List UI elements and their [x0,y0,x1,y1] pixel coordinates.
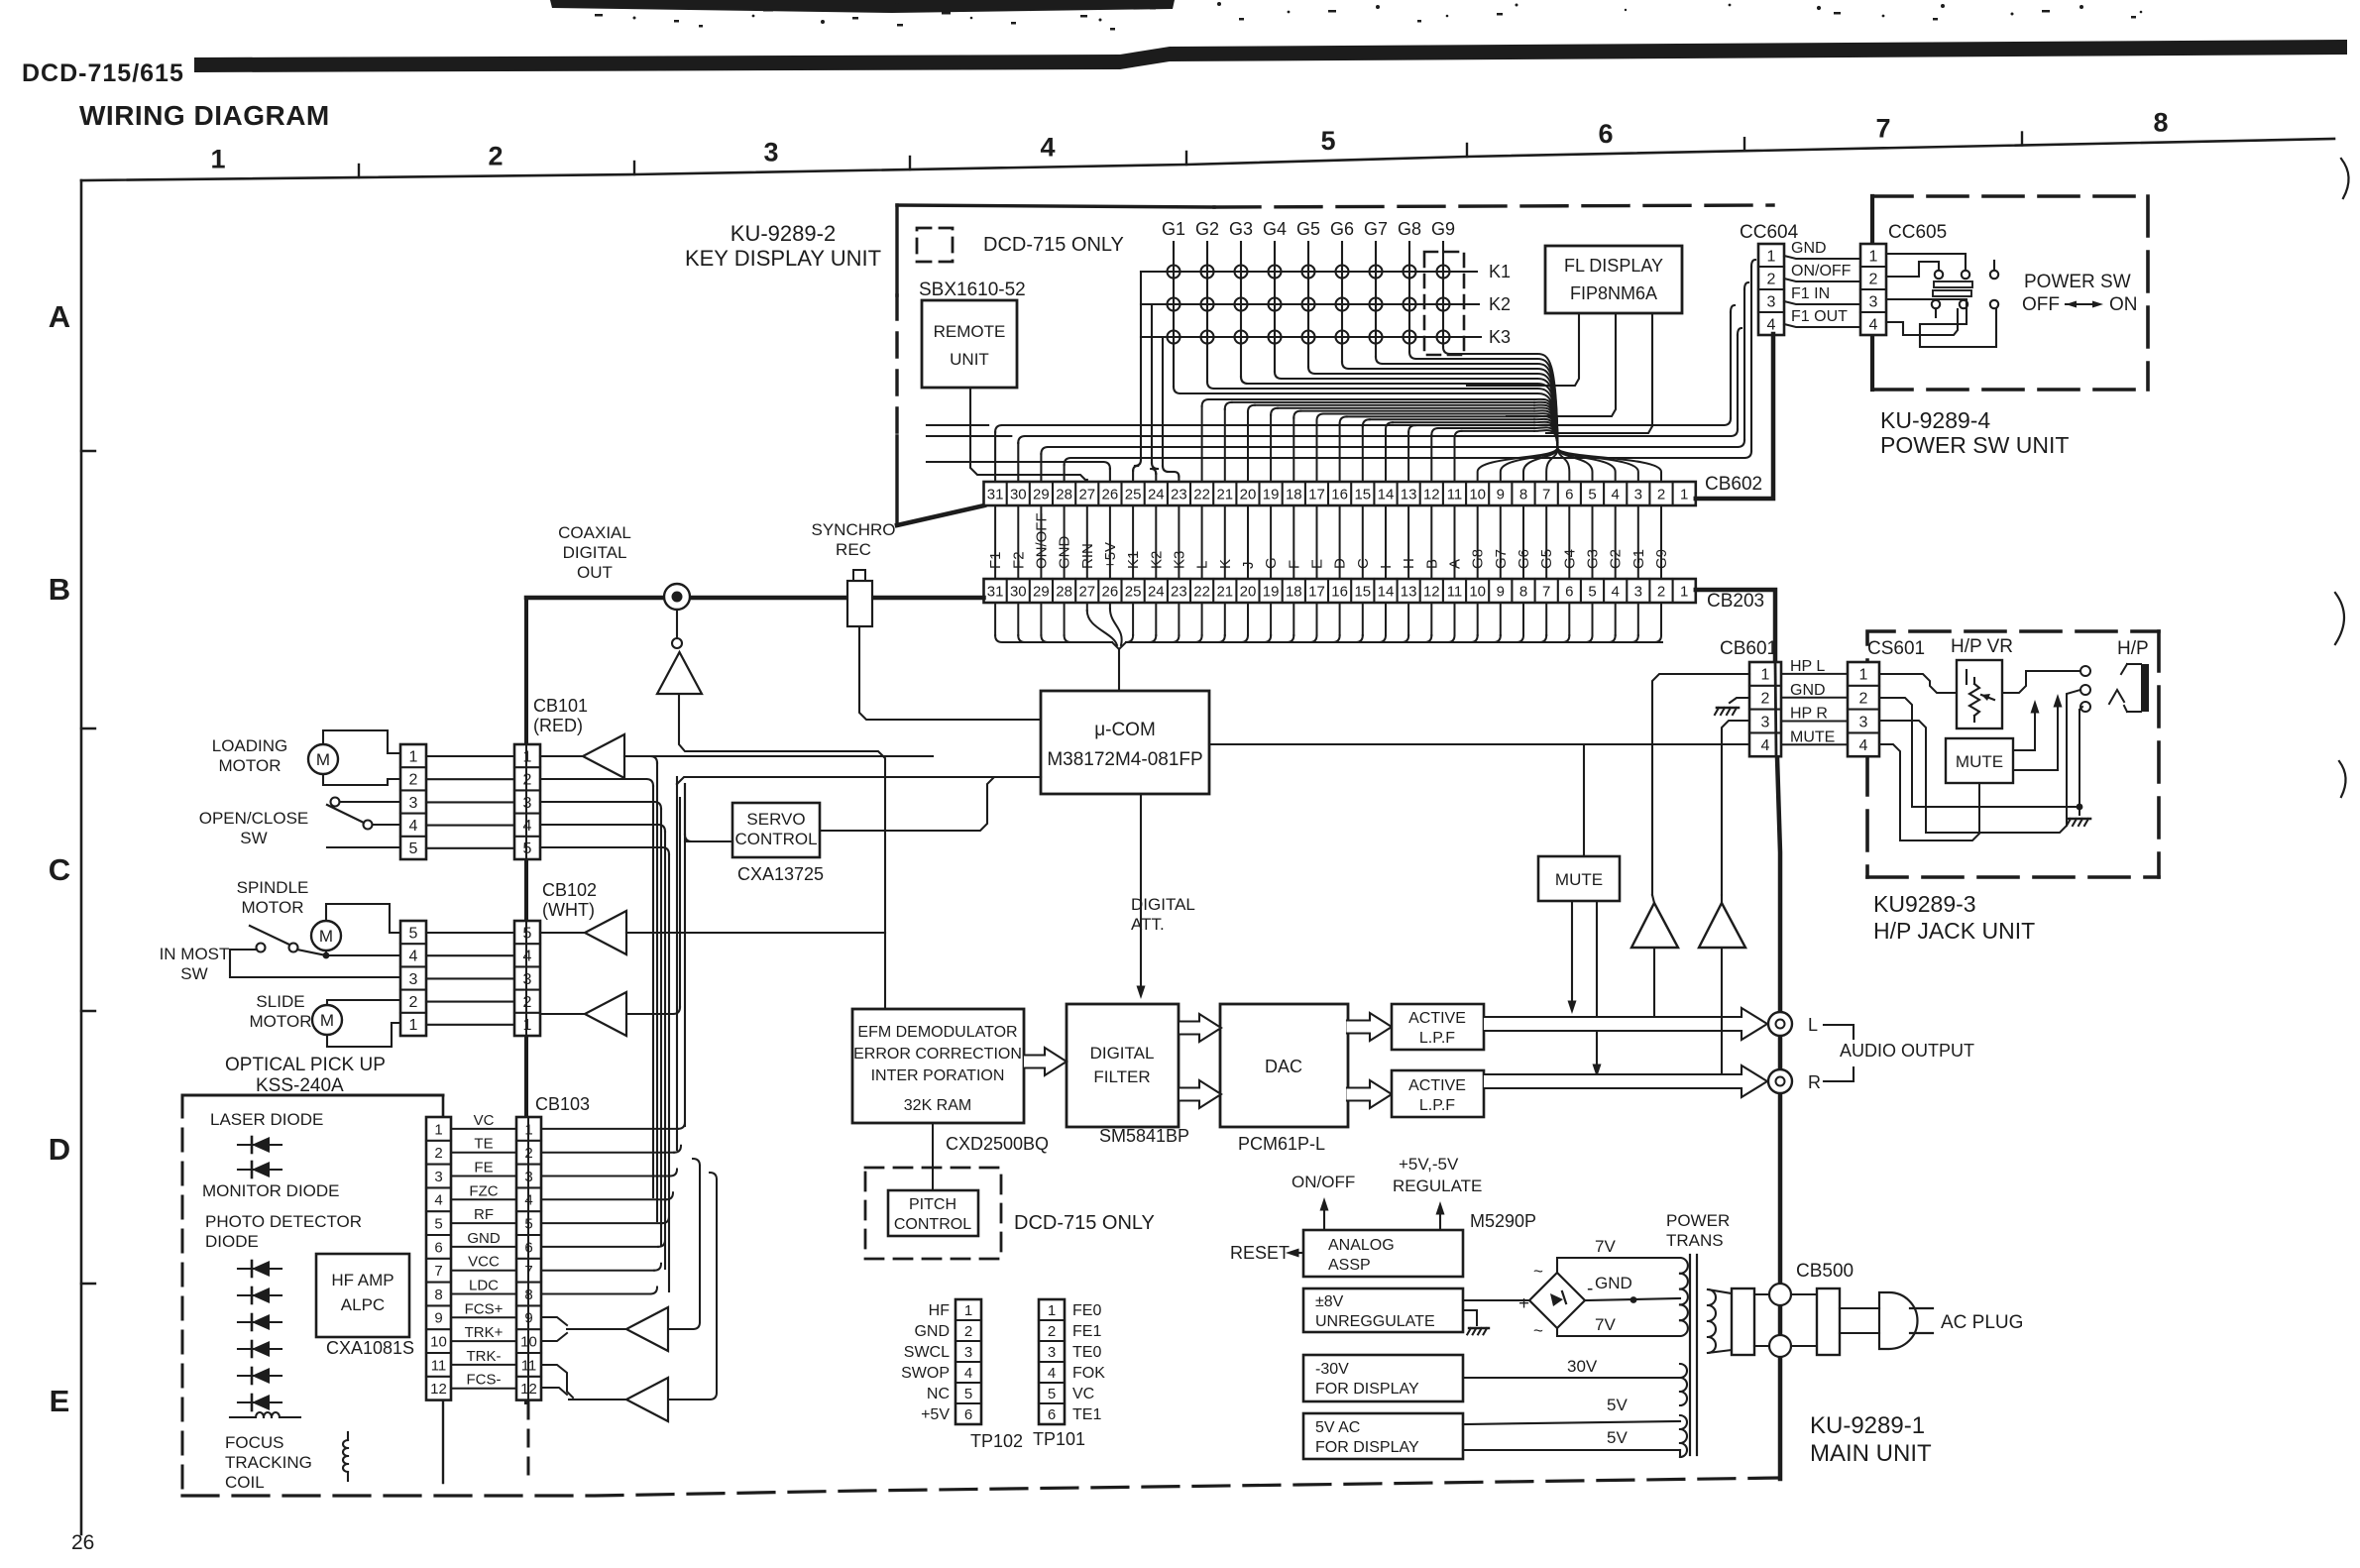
pitch control text [894,1196,971,1233]
svg-text:30: 30 [1010,583,1027,600]
svg-text:OFF: OFF [2022,294,2060,315]
motor loading label [212,736,288,775]
grid row label D [49,1132,70,1167]
ac plug prongs [1910,1308,1933,1333]
label GND mid [1595,1274,1632,1292]
svg-text:G7: G7 [1493,549,1510,569]
wire CS601 pin2 gnd path [1879,698,2082,815]
wire bundle G lines pinch [1180,354,1661,482]
svg-text:H/P JACK UNIT: H/P JACK UNIT [1873,918,2035,944]
psu box 8v [1303,1288,1463,1332]
svg-text:M38172M4-081FP: M38172M4-081FP [1047,749,1202,770]
connector CS601 label [1867,638,1925,659]
wire +5V pin26 [927,462,1110,482]
wire CS601 pin3 to jack ring [1879,690,2080,833]
open/close switch [327,798,400,848]
photo diode D5 [238,1314,281,1330]
svg-text:GND: GND [914,1323,950,1340]
svg-text:13: 13 [1401,583,1417,600]
wire CB101 pin2 fan [540,779,653,786]
svg-text:20: 20 [1240,486,1257,503]
CB601-CS601 labels [1790,658,1835,745]
wire mute arrow R [1593,901,1602,1077]
svg-text:KU-9289-4: KU-9289-4 [1880,407,1990,433]
svg-text:25: 25 [1125,583,1142,600]
grid row label C [49,852,70,887]
power sw unit label [1880,407,2069,458]
digital filter text [1090,1044,1155,1086]
synchro rec label [811,520,895,559]
wire 8v to bridge [1463,1299,1529,1301]
connector motor strip 2 [400,921,426,1036]
svg-text:3: 3 [1048,1344,1056,1361]
svg-text:1: 1 [523,748,532,765]
CB602-CB203 signal labels [987,512,1670,569]
svg-text:3: 3 [1869,293,1878,310]
wire CB602-CB203 vertical links [995,505,1661,579]
motor M slide [312,1005,342,1035]
digital att label [1131,895,1195,934]
ground CB601 gnd [1715,698,1749,715]
svg-text:COIL: COIL [225,1473,265,1492]
connector CB101 [514,744,540,859]
svg-text:CONTROL: CONTROL [894,1216,971,1233]
svg-text:F2: F2 [1010,551,1027,569]
wire CB103 pin11-12 to tracking amp [541,1365,626,1400]
svg-text:5: 5 [523,925,532,942]
key matrix G column lines [1174,242,1450,393]
transformer secondary 2 [1680,1364,1687,1405]
photo diode D4 [238,1288,281,1303]
wire CB500 links [1754,1294,1817,1346]
svg-text:11: 11 [1447,583,1463,600]
svg-text:AUDIO OUTPUT: AUDIO OUTPUT [1840,1041,1974,1061]
inverter buffer U-coax [657,610,702,694]
connector CB102 [514,921,540,1036]
svg-text:15: 15 [1354,583,1371,600]
pitch control box [888,1190,978,1236]
optical pickup label [225,1055,386,1096]
svg-text:CXA1081S: CXA1081S [326,1338,414,1358]
audio output bracket [1824,1025,1854,1081]
svg-text:FILTER: FILTER [1093,1067,1150,1086]
key matrix K row lines [1141,272,1481,337]
svg-text:SW: SW [240,829,267,847]
DAC part label PCM61P-L [1238,1134,1325,1154]
svg-text:(WHT): (WHT) [542,900,595,920]
svg-text:5: 5 [434,1216,442,1233]
svg-text:INTER PORATION: INTER PORATION [871,1067,1005,1084]
svg-text:FE0: FE0 [1072,1302,1101,1319]
connector CB203 [984,579,1696,603]
mute box text [1555,870,1603,889]
wire CB101 pin3 fan [540,802,661,809]
svg-text:24: 24 [1148,486,1165,503]
svg-text:2: 2 [409,772,418,789]
grid row label B [49,572,70,607]
svg-text:FCS+: FCS+ [465,1300,504,1317]
svg-text:E: E [50,1384,70,1418]
svg-text:ON: ON [2109,294,2138,315]
svg-text:L.P.F: L.P.F [1419,1030,1455,1047]
svg-text:6: 6 [1598,119,1613,149]
svg-text:POWER SW UNIT: POWER SW UNIT [1880,432,2069,458]
DCD-715 ONLY legend box [917,228,953,262]
remote unit text [934,322,1006,369]
svg-text:DIGITAL: DIGITAL [563,543,627,562]
svg-text:30V: 30V [1567,1357,1598,1376]
wire CB101 pin5 fan [540,847,669,854]
wire CC604-CC605 labels [1791,240,1852,325]
amp U-CB101 triangle [540,734,624,778]
svg-text:26: 26 [1102,486,1119,503]
wire CB601 pin3 to CS601 pin3 [1781,721,1848,723]
amp U-tracking triangle [626,1378,668,1421]
tracking coil vertical [343,1432,348,1481]
svg-text:KEY DISPLAY UNIT: KEY DISPLAY UNIT [685,246,881,271]
arrow DAC to LPF2 [1347,1080,1392,1108]
svg-text:7: 7 [434,1263,442,1280]
svg-text:1: 1 [434,1121,442,1138]
DAC text [1265,1057,1302,1076]
svg-text:REMOTE: REMOTE [934,322,1006,341]
svg-text:5: 5 [1048,1386,1056,1402]
svg-text:G2: G2 [1608,549,1625,569]
svg-text:5: 5 [409,925,418,942]
wire remote to RIN pin27 [970,388,1087,482]
psu box 5vac [1303,1413,1463,1459]
svg-text:12: 12 [1423,486,1440,503]
svg-text:H: H [1401,558,1417,569]
svg-text:22: 22 [1193,583,1210,600]
TP102 name [970,1431,1023,1451]
svg-text:+: + [1518,1293,1529,1314]
svg-text:ON/OFF: ON/OFF [1033,512,1050,569]
pitch DCD-715 only label [1014,1212,1155,1234]
svg-text:UNIT: UNIT [950,350,989,369]
svg-text:5V: 5V [1607,1396,1628,1414]
svg-text:G4: G4 [1561,549,1578,569]
svg-text:L.P.F: L.P.F [1419,1097,1455,1114]
remote unit label SBX1610-52 [919,280,1026,300]
synchro rec connector [847,570,872,626]
wire CB602 to CC604 thick [1696,334,1773,499]
svg-text:A: A [1446,559,1463,569]
ic HF AMP ALPC box [316,1254,409,1337]
svg-text:M: M [320,1011,334,1030]
wire bridge top 7V [1557,1258,1680,1273]
FL display wire 1 [1467,313,1579,386]
key display unit label [685,221,881,271]
hp vr potentiometer [1967,670,1994,722]
remote unit U-REMOTE box [922,300,1017,388]
amp U-focus triangle [626,1307,668,1351]
hp vr box [1957,660,2002,728]
wire bundle to servo [685,784,732,841]
scan noise top bar [550,0,2142,24]
svg-text:FOCUS: FOCUS [225,1433,284,1452]
connector CB601 [1749,662,1781,756]
svg-text:PCM61P-L: PCM61P-L [1238,1134,1325,1154]
svg-text:TE0: TE0 [1072,1344,1101,1361]
hp vr label [1951,636,2013,657]
svg-text:μ-COM: μ-COM [1094,720,1156,740]
svg-text:ANALOG: ANALOG [1328,1237,1395,1254]
connector motor strip 1 [400,744,426,859]
svg-text:-: - [1587,1279,1593,1299]
photo detector label [205,1212,362,1251]
svg-text:KSS-240A: KSS-240A [256,1075,344,1096]
svg-text:LASER DIODE: LASER DIODE [210,1110,323,1129]
svg-text:8: 8 [434,1287,442,1303]
svg-text:3: 3 [523,971,532,988]
svg-text:3: 3 [763,138,778,168]
hp mute text [1956,752,2003,771]
svg-text:D: D [1332,558,1349,569]
svg-text:21: 21 [1216,583,1233,600]
svg-text:3: 3 [523,795,532,812]
svg-text:4: 4 [1859,737,1868,754]
key matrix switch circles [1168,266,1450,344]
wire 8v gnd stub [1463,1310,1477,1325]
svg-text:2: 2 [488,142,503,171]
wire CB103 pin9-10 to focus amp [541,1317,626,1341]
svg-text:G4: G4 [1263,219,1287,239]
svg-text:MOTOR: MOTOR [219,756,281,775]
svg-text:29: 29 [1033,486,1050,503]
svg-text:27: 27 [1078,583,1095,600]
svg-text:1: 1 [409,748,418,765]
svg-text:2: 2 [1869,271,1878,287]
svg-text:H/P VR: H/P VR [1951,636,2013,657]
TP101 labels [1072,1302,1105,1423]
HF AMP text [331,1271,393,1314]
motor slide label [250,992,312,1031]
svg-text:3: 3 [434,1169,442,1185]
wire K1 matrix to pin25 [1133,272,1141,482]
audio output label [1840,1041,1974,1061]
wire VR to jack tip [2002,671,2080,693]
active lpf 1 text [1408,1010,1466,1047]
svg-text:4: 4 [409,949,418,965]
svg-text:F1 IN: F1 IN [1791,285,1830,302]
transformer core [1690,1255,1697,1455]
photo diode D3 [238,1261,281,1277]
svg-text:F1: F1 [987,551,1004,569]
svg-text:32K RAM: 32K RAM [904,1097,971,1114]
svg-text:9: 9 [434,1310,442,1327]
svg-text:G1: G1 [1630,549,1647,569]
svg-text:G8: G8 [1470,549,1487,569]
svg-text:M5290P: M5290P [1470,1211,1536,1231]
active lpf 2 text [1408,1077,1466,1114]
connector CB103 [516,1117,541,1400]
svg-text:23: 23 [1171,583,1187,600]
svg-text:TE1: TE1 [1072,1406,1101,1423]
focus coil horizontal [230,1412,300,1417]
wire audio L pair and arrow [1484,1008,1767,1040]
wire digital att [1137,794,1146,999]
svg-text:1: 1 [409,1017,418,1034]
svg-text:10: 10 [430,1334,447,1351]
svg-text:CC604: CC604 [1740,222,1799,243]
svg-text:SYNCHRO: SYNCHRO [811,520,895,539]
svg-text:MONITOR DIODE: MONITOR DIODE [202,1181,340,1200]
svg-text:G7: G7 [1364,219,1388,239]
grid column numbers [210,108,2168,174]
photo diode D8 [238,1395,281,1410]
psu 30v text [1315,1361,1419,1398]
wire overlay CB601 [1775,662,1776,756]
laser diode label [210,1110,323,1129]
svg-text:OUT: OUT [577,563,613,582]
connector CB500 label [1796,1261,1854,1282]
svg-text:G8: G8 [1398,219,1421,239]
svg-text:7V: 7V [1595,1315,1616,1334]
wire CC604 pin4 to CC605 pin4 [1784,324,1860,327]
power switch label [2022,272,2138,315]
coaxial digital out label [558,523,631,582]
svg-text:CB102: CB102 [542,880,597,900]
svg-text:G5: G5 [1538,549,1555,569]
svg-text:MOTOR: MOTOR [250,1012,312,1031]
svg-text:4: 4 [523,818,532,835]
arrow DAC to LPF1 [1347,1013,1392,1041]
svg-text:14: 14 [1378,583,1395,600]
wire 5V b [1463,1449,1680,1451]
power switch pole 2 [1886,290,1998,347]
svg-text:18: 18 [1286,583,1302,600]
wire bundle verticals [653,763,685,1291]
svg-text:MOTOR: MOTOR [242,898,304,917]
wire mute arrow L [1568,901,1577,1014]
svg-text:SW: SW [180,964,207,983]
svg-text:SERVO: SERVO [746,810,805,829]
ground hp unit [2067,819,2090,826]
svg-text:2: 2 [1657,486,1665,503]
svg-text:9: 9 [1497,486,1505,503]
svg-text:4: 4 [409,818,418,835]
open/close sw label [199,809,309,847]
svg-text:10: 10 [1469,486,1486,503]
svg-text:K: K [1217,559,1234,569]
svg-text:POWER: POWER [1666,1211,1730,1230]
svg-text:F: F [1286,560,1302,569]
svg-text:2: 2 [1761,691,1770,708]
svg-text:+5V: +5V [1102,542,1119,569]
wire CB103 pins1-8 fan [541,1122,685,1294]
servo control part label CXA13725 [737,864,824,884]
svg-text:11: 11 [431,1357,447,1374]
svg-text:19: 19 [1263,486,1280,503]
wire pickup to CB103 with labels [451,1112,516,1389]
connector CC605 [1860,244,1886,335]
FL display text [1564,256,1663,303]
svg-text:SPINDLE: SPINDLE [237,878,309,897]
svg-text:28: 28 [1056,486,1072,503]
svg-text:5: 5 [409,840,418,857]
svg-text:DCD-715/615: DCD-715/615 [22,59,184,87]
hp jack body [2109,664,2149,712]
svg-text:ASSP: ASSP [1328,1257,1371,1274]
svg-text:1: 1 [964,1302,972,1319]
svg-text:ON/OFF: ON/OFF [1791,263,1852,280]
TP101 name [1033,1429,1085,1449]
wire ON/OFF pin29 to CC604 pin2 [1041,282,1748,482]
svg-text:TP101: TP101 [1033,1429,1085,1449]
svg-text:FIP8NM6A: FIP8NM6A [1570,283,1657,303]
wire GND pin28 to CC604 pin1 [1065,260,1755,482]
svg-text:K1: K1 [1125,551,1142,569]
svg-text:B: B [1423,559,1440,569]
testpoint TP101 [1039,1299,1065,1424]
svg-text:G2: G2 [1195,219,1219,239]
svg-text:22: 22 [1193,486,1210,503]
svg-text:DIGITAL: DIGITAL [1090,1044,1155,1063]
svg-text:ALPC: ALPC [341,1295,385,1314]
key matrix G labels [1162,219,1455,239]
svg-text:GND: GND [1790,682,1826,699]
connector CC604 [1758,244,1784,335]
wire uCOM left line C [677,777,1041,784]
svg-text:27: 27 [1078,486,1095,503]
svg-text:+5V,-5V: +5V,-5V [1399,1155,1459,1174]
grid row ticks [81,451,95,1284]
svg-text:DCD-715 ONLY: DCD-715 ONLY [983,234,1124,256]
svg-text:G9: G9 [1653,549,1670,569]
analog assp text [1328,1237,1395,1274]
svg-text:7V: 7V [1595,1237,1616,1256]
svg-text:~: ~ [1533,1262,1543,1281]
svg-text:4: 4 [1761,737,1770,754]
svg-text:RF: RF [474,1206,494,1223]
svg-text:4: 4 [1040,133,1055,163]
svg-text:K3: K3 [1489,327,1511,347]
wire CS601 pin4 to hp mute [1881,744,1979,840]
svg-text:FCS-: FCS- [467,1372,502,1389]
connector CC604 label [1740,222,1799,243]
svg-text:COAXIAL: COAXIAL [558,523,631,542]
svg-text:1: 1 [210,145,225,174]
svg-text:FE: FE [474,1160,493,1176]
wire overlay CB103 [527,1117,529,1400]
audio L label [1808,1015,1818,1035]
ac plug body [1840,1292,1918,1349]
svg-text:1: 1 [1761,667,1770,684]
wire CB601 pin4 to CS601 pin4 [1781,743,1848,745]
bridge rectifier [1518,1262,1593,1340]
wire overlay CB102 [525,921,527,1034]
wire CB101 input branch down [650,756,657,763]
laser diode D2 [238,1162,281,1177]
svg-text:3: 3 [1767,293,1776,310]
svg-text:CXD2500BQ: CXD2500BQ [946,1134,1049,1154]
connector CB101 label [533,696,588,735]
svg-text:±8V: ±8V [1315,1293,1344,1310]
active lpf box 2 [1392,1070,1484,1117]
wire K2 matrix to pin24 [1151,304,1158,482]
wire main left vertical thick [524,598,528,1402]
ac plug label [1941,1312,2023,1333]
psu 8v text [1315,1293,1435,1330]
svg-text:CB500: CB500 [1796,1261,1854,1282]
uCOM text [1047,720,1202,770]
svg-text:31: 31 [987,583,1004,600]
hp jack contacts [2080,666,2090,712]
key display unit border top [897,205,1773,207]
svg-text:FE1: FE1 [1072,1323,1101,1340]
motor spindle label [237,878,309,917]
